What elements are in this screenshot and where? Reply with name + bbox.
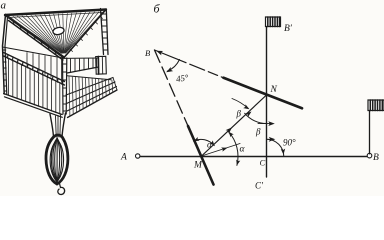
svg-text:б: б <box>154 2 161 16</box>
circle at B right <box>367 153 372 158</box>
shallow mirror solid <box>224 78 303 109</box>
svg-text:N: N <box>270 85 278 95</box>
left wall bottom edge <box>4 94 62 115</box>
ray M to N <box>201 95 267 157</box>
handle bulb <box>46 135 68 184</box>
svg-text:B′: B′ <box>284 24 293 34</box>
left corner post <box>3 15 6 95</box>
svg-text:M: M <box>193 161 203 171</box>
bottom wedge boards <box>66 78 113 96</box>
hanging hook <box>60 184 61 188</box>
left wall top edge <box>3 47 64 58</box>
right corner post <box>101 9 104 55</box>
svg-text:B: B <box>145 48 150 58</box>
right flag pole <box>369 111 371 154</box>
diagonal mirror band on left wall <box>4 53 65 82</box>
oval eyehole O <box>52 26 64 35</box>
right post lower block <box>96 56 107 74</box>
svg-text:90°: 90° <box>283 137 296 147</box>
arrow on ray MN <box>226 126 234 134</box>
left wall vertical hatching <box>9 53 62 115</box>
arrowhead at B <box>155 49 163 56</box>
steep mirror solid <box>188 126 214 185</box>
steep mirror dashed extension B-M <box>155 50 189 126</box>
svg-text:B: B <box>373 153 379 163</box>
svg-text:A: A <box>120 153 127 163</box>
beta arc 2 at N <box>245 113 267 123</box>
triangle right side rim <box>64 10 106 58</box>
svg-text:β: β <box>236 109 242 119</box>
shallow mirror dashed extension from B <box>155 50 224 78</box>
svg-text:C: C <box>260 158 266 168</box>
central front post <box>62 58 65 114</box>
triangle left side rim <box>6 15 65 58</box>
handle neck <box>50 114 54 137</box>
svg-text:45°: 45° <box>175 72 189 84</box>
ground line A-M-C-B <box>140 156 367 158</box>
90 degree arc at C <box>267 139 284 156</box>
beta arrow 1 at N <box>232 99 248 109</box>
thin ray from M <box>202 144 241 157</box>
alpha arc 2 at M <box>229 132 238 166</box>
top flag B' <box>266 17 281 27</box>
top edge of box <box>5 10 106 16</box>
vertical line B'-N-C-C' <box>266 27 268 178</box>
right wall upper band <box>63 57 99 59</box>
fan shading of top face <box>8 11 104 53</box>
right flag <box>368 100 384 111</box>
45 degree arc at B <box>167 60 179 72</box>
svg-text:β: β <box>255 127 261 137</box>
alpha arc 1 at M <box>194 139 215 145</box>
circle at A <box>136 154 140 158</box>
svg-text:C′: C′ <box>255 181 264 191</box>
svg-text:а: а <box>1 0 7 12</box>
